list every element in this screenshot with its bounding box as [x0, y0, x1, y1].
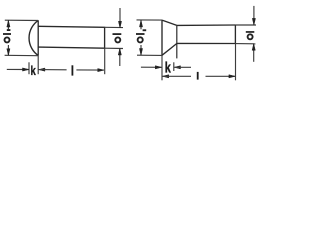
d1 bottom extension (right rivet): [137, 54, 162, 56]
head flat face: [161, 20, 163, 55]
shank end line: [234, 25, 236, 44]
k left arrowhead pointing right (right rivet): [155, 66, 161, 69]
k right arrow stem (right rivet): [174, 66, 191, 68]
k left arrow stem: [7, 68, 29, 70]
d1 bottom extension line: [5, 54, 39, 56]
d arrow up (right rivet): [252, 44, 255, 51]
d1 lower stem (right rivet): [140, 45, 142, 55]
l left arrowhead pointing left (left rivet): [39, 68, 45, 71]
label d right rivet: stem bar: [246, 31, 255, 33]
label d right rivet: bowl ring: [248, 34, 253, 39]
head flat face line: [37, 20, 39, 55]
l left arrowhead pointing left (right rivet): [162, 75, 168, 78]
d upper stem (right rivet): [253, 6, 255, 25]
label d1 right: d bowl ring: [138, 37, 143, 42]
label l (left rivet): [72, 65, 74, 75]
d1 arrow up: [7, 20, 10, 27]
label d left rivet: bowl ring: [115, 37, 120, 42]
d dim lower stem (left rivet): [119, 48, 121, 66]
head/shank junction line: [176, 25, 178, 58]
shank top edge: [177, 24, 236, 26]
d1 top extension (right rivet): [137, 19, 163, 21]
l right arrowhead pointing right (right rivet): [229, 75, 235, 78]
taper bottom edge: [162, 44, 177, 56]
d1 upper stem (right rivet): [140, 20, 142, 29]
label d1 right: d stem bar: [136, 33, 145, 35]
d dim upper stem (left rivet): [119, 8, 121, 28]
label l (right rivet): [197, 72, 199, 80]
k right extension tick (right rivet): [173, 62, 175, 71]
d1 arrow up (right rivet): [139, 20, 142, 27]
d1 dimension upper stem: [7, 20, 9, 29]
face extension below head (right rivet): [161, 55, 163, 80]
taper top edge: [162, 20, 177, 25]
d top extension line (left rivet): [105, 26, 124, 28]
shank bottom edge: [177, 42, 236, 44]
k left arrow stem (right rivet): [141, 66, 162, 68]
d lower stem (right rivet): [253, 44, 255, 62]
face extension below head (left rivet): [37, 56, 39, 75]
svg-text:k: k: [165, 59, 172, 76]
d arrow up (left rivet): [118, 48, 121, 55]
l left stem (left rivet): [39, 69, 67, 71]
shank bottom edge: [38, 47, 104, 48]
k left extension tick (left rivet): [28, 62, 30, 74]
d1 dimension lower stem: [7, 45, 9, 55]
l right extension line below shank end (left rivet): [104, 48, 106, 74]
label d1 right: subscript 1 dash: [143, 29, 147, 31]
d1 arrow down (right rivet): [139, 49, 142, 56]
k left arrowhead pointing right: [23, 68, 29, 71]
l right extension below shank end (right rivet): [235, 44, 237, 81]
svg-text:k: k: [31, 65, 37, 79]
round head dome arc: [29, 20, 38, 55]
l right stem (right rivet): [206, 75, 236, 77]
l right stem (left rivet): [76, 69, 103, 71]
d bottom extension (right rivet): [235, 43, 255, 45]
l left stem (right rivet): [162, 75, 191, 77]
shank end line: [104, 27, 106, 49]
label d1 left: subscript 1 dash: [7, 29, 11, 31]
k right arrowhead pointing left (right rivet): [174, 66, 180, 69]
d arrow down (left rivet): [118, 21, 121, 28]
label d left rivet: stem bar: [113, 33, 122, 35]
label d1 left: d bowl ring: [5, 37, 10, 42]
label d1 left: d stem bar: [3, 33, 11, 35]
shank top edge: [38, 26, 104, 27]
l right arrowhead pointing right (left rivet): [98, 69, 104, 72]
d1 arrow down: [7, 49, 10, 56]
d1 top extension line: [5, 19, 38, 21]
d top extension (right rivet): [235, 24, 256, 26]
d arrow down (right rivet): [252, 18, 255, 25]
d bottom extension line (left rivet): [105, 47, 124, 49]
